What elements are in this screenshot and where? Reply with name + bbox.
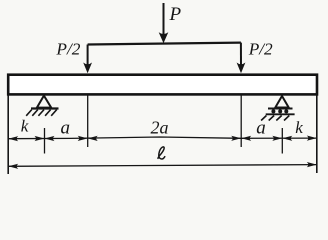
right support: upper ground line xyxy=(268,108,293,110)
label script l (overall length) xyxy=(158,147,165,159)
force P/2 right arrow xyxy=(237,43,246,74)
witness line at right load point xyxy=(240,96,242,148)
svg-text:2a: 2a xyxy=(151,118,169,138)
witness line at right support xyxy=(281,128,283,154)
upper dimension line k,a,2a,a,k xyxy=(8,137,317,139)
svg-text:k: k xyxy=(295,118,303,137)
witness line at left support xyxy=(44,128,46,154)
spreader bar (rigid crossbar distributing P) xyxy=(88,43,241,45)
right support: lower ground line xyxy=(266,113,295,115)
lower dimension line (overall length) xyxy=(8,165,317,167)
right support: hatching xyxy=(261,116,289,121)
upper dimension arrowheads xyxy=(8,136,317,142)
force P/2 left arrow xyxy=(83,45,92,74)
svg-text:k: k xyxy=(21,117,29,136)
right support: roller triangle xyxy=(275,96,288,108)
svg-text:P/2: P/2 xyxy=(55,40,80,59)
left support: pin triangle xyxy=(37,96,51,108)
svg-text:a: a xyxy=(61,117,71,138)
force P arrow xyxy=(159,3,169,43)
right support: rollers xyxy=(271,109,288,113)
svg-text:a: a xyxy=(256,118,266,139)
witness line at left load point xyxy=(87,96,89,148)
witness line right end (beam right edge extended) xyxy=(316,96,318,174)
svg-text:P: P xyxy=(169,4,182,25)
left support: hatching xyxy=(26,110,57,116)
witness line left end (beam left edge extended) xyxy=(7,96,9,175)
left support: ground line xyxy=(31,107,59,109)
svg-text:P/2: P/2 xyxy=(248,39,273,58)
beam (main horizontal member) xyxy=(8,75,317,95)
lower dimension arrowheads xyxy=(8,162,317,169)
